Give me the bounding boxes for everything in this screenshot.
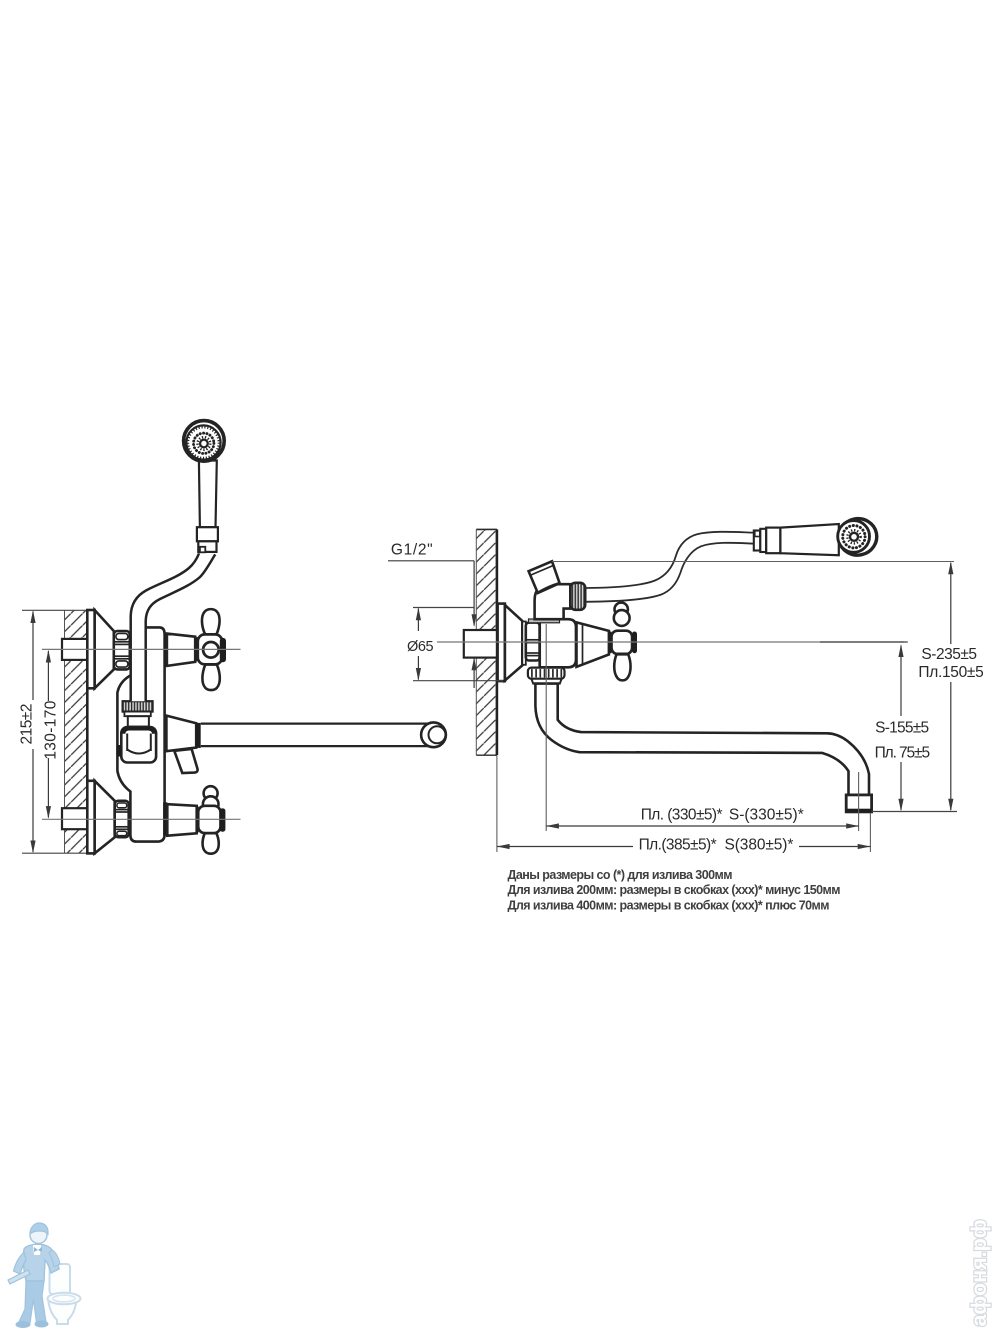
shower hose (right view)	[585, 532, 753, 602]
diverter nozzle (right view)	[529, 561, 560, 593]
escutcheon flange (right view)	[498, 604, 523, 682]
bottom cross handle (left view)	[198, 786, 225, 854]
handset handle (right view)	[780, 524, 838, 555]
svg-text:афоня.рф: афоня.рф	[967, 1219, 991, 1326]
top valve joint ring (left view)	[164, 634, 167, 666]
spout joint dark ring (left view)	[196, 723, 201, 748]
wall stub (right view)	[464, 630, 497, 658]
svg-text:Для излива 200мм: размеры в ск: Для излива 200мм: размеры в скобках (ххх…	[508, 883, 841, 897]
spout tube (left view)	[201, 722, 446, 747]
cross handle (right view)	[612, 603, 638, 681]
bonnet stem ring (right view)	[609, 632, 612, 654]
spout nut scalloped (right view)	[528, 668, 565, 684]
body shoulder shading (right view)	[529, 619, 560, 623]
bottom escutcheon flange (left view)	[87, 781, 114, 854]
valve body (right view)	[540, 619, 576, 667]
handset head (left view)	[184, 421, 225, 462]
diverter knob (left view)	[117, 727, 157, 763]
shower hose (left view)	[131, 553, 216, 701]
svg-text:G1/2": G1/2"	[391, 542, 433, 559]
hose connector (right view)	[754, 528, 781, 554]
svg-text:Для излива 400мм: размеры в ск: Для излива 400мм: размеры в скобках (ххх…	[508, 899, 830, 913]
top hex nut (left view)	[114, 631, 130, 669]
spout S-tube (right view)	[535, 684, 869, 795]
wall section (left view)	[65, 610, 88, 854]
bottom hex nut (left view)	[115, 801, 129, 837]
handset axis extension line (right view)	[552, 561, 954, 563]
centerline bottom inlet (left view)	[42, 818, 241, 820]
dimension 130-170	[42, 650, 59, 819]
bottom dimension 330	[546, 772, 859, 831]
svg-text:215±2: 215±2	[18, 704, 35, 745]
top escutcheon flange (left view)	[87, 610, 114, 688]
aerator (right view)	[846, 795, 871, 812]
spout axis extension line (right view)	[545, 624, 547, 831]
top valve bonnet (left view)	[167, 634, 195, 666]
bottom dimension 385	[497, 756, 871, 853]
svg-text:Пл.150±5: Пл.150±5	[918, 664, 983, 681]
centerline (right view)	[437, 641, 904, 643]
svg-text:S-(330±5)*: S-(330±5)*	[729, 807, 804, 824]
svg-text:Ø65: Ø65	[407, 639, 433, 655]
top valve stem ring (left view)	[196, 637, 200, 661]
spout cone (left view)	[166, 716, 196, 752]
diverter hose nut (left view)	[123, 701, 153, 716]
right dimension S-235 / Пл.150	[872, 562, 984, 812]
valve bonnet (right view)	[577, 622, 609, 667]
centerline top inlet (left view)	[42, 648, 241, 650]
svg-text:S(380±5)*: S(380±5)*	[725, 836, 794, 853]
hose nut knurled ring (right view)	[570, 583, 585, 610]
svg-text:S-155±5: S-155±5	[875, 720, 928, 737]
mixer body (left view)	[117, 627, 164, 841]
bottom valve bonnet (left view)	[167, 804, 196, 836]
shower elbow (right view)	[535, 584, 571, 619]
plumber logo	[8, 1223, 81, 1328]
svg-text:Пл.(385±5)*: Пл.(385±5)*	[639, 836, 717, 853]
svg-text:130-170: 130-170	[42, 700, 59, 759]
handset hose connector (left view)	[197, 527, 218, 552]
bottom wall stub (left view)	[62, 808, 87, 829]
svg-text:Даны размеры со (*) для излива: Даны размеры со (*) для излива 300мм	[508, 868, 733, 882]
notes text block	[508, 868, 841, 913]
bottom valve stem ring (left view)	[197, 807, 199, 833]
wall section (right view)	[476, 529, 497, 755]
top cross handle (left view)	[198, 609, 226, 690]
handset handle (left view)	[199, 461, 217, 528]
diverter neck (left view)	[128, 716, 149, 726]
right dimension S-155 / Пл.75	[820, 642, 929, 812]
Ø65 dimension	[407, 608, 503, 681]
G1/2 leader	[388, 542, 477, 689]
svg-text:Пл. (330±5)*: Пл. (330±5)*	[641, 807, 723, 824]
bottom valve joint ring (left view)	[163, 802, 167, 835]
handset head (right view)	[835, 515, 880, 559]
wall hex nut (right view)	[526, 623, 540, 661]
top wall stub (left view)	[62, 639, 87, 660]
svg-text:Пл. 75±5: Пл. 75±5	[875, 745, 930, 762]
diverter lever (left view)	[174, 749, 197, 773]
dimension 215±2	[18, 610, 95, 853]
flange collar (right view)	[522, 622, 526, 665]
svg-text:S-235±5: S-235±5	[921, 646, 976, 663]
